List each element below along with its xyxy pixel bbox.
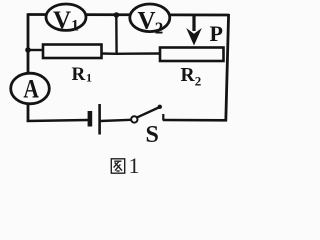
node junction dot top xyxy=(114,12,120,18)
wiper arrow of rheostat xyxy=(186,15,202,46)
svg-text:1: 1 xyxy=(129,153,140,178)
caption: character 图 drawn as strokes xyxy=(111,159,124,173)
voltmeter V2 xyxy=(130,4,170,38)
svg-text:R: R xyxy=(72,64,86,85)
wire node to R2 left xyxy=(117,52,161,55)
wire left vertical xyxy=(27,13,30,122)
svg-text:V: V xyxy=(53,7,71,34)
wire node to R1 left xyxy=(28,49,43,51)
svg-text:V: V xyxy=(138,8,156,35)
svg-text:P: P xyxy=(210,21,223,46)
resistor R2 (rheostat track) xyxy=(160,48,224,62)
wire battery to switch xyxy=(101,120,132,121)
svg-text:2: 2 xyxy=(155,19,164,38)
label R2 xyxy=(181,65,202,89)
switch S xyxy=(131,105,162,123)
wire switch to bottom right corner xyxy=(163,119,227,122)
resistor R1 xyxy=(43,45,102,59)
wire vertical junction between V1 and V2 xyxy=(115,15,118,55)
wire R1 right to node xyxy=(102,52,118,55)
svg-text:A: A xyxy=(23,75,39,104)
svg-text:S: S xyxy=(146,122,159,148)
svg-text:2: 2 xyxy=(195,74,202,89)
wire right vertical xyxy=(226,14,229,121)
label R1 xyxy=(72,64,93,85)
wire bottom left segment xyxy=(27,120,88,121)
node junction dot left xyxy=(25,47,31,53)
battery cell xyxy=(88,104,101,135)
wire stub fixed switch contact xyxy=(162,114,164,121)
wire top horizontal xyxy=(28,13,229,16)
ammeter A xyxy=(11,73,50,104)
svg-text:1: 1 xyxy=(71,18,79,35)
svg-text:1: 1 xyxy=(86,71,92,85)
voltmeter V1 xyxy=(46,4,86,35)
svg-text:R: R xyxy=(181,65,196,86)
